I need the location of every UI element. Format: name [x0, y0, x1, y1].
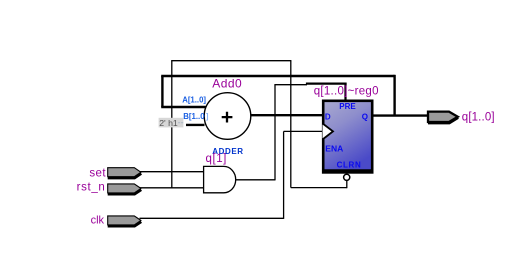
- svg-text:CLRN: CLRN: [337, 160, 362, 169]
- gate AND q[1]: [204, 166, 236, 192]
- svg-text:ENA: ENA: [325, 143, 343, 153]
- wire clrn stub to bubble: [346, 181, 348, 188]
- wire clk into clock triangle: [284, 130, 323, 132]
- svg-text:D: D: [325, 112, 331, 121]
- wire rst_n down to clrn level: [290, 61, 292, 188]
- bus constant to adder B: [186, 124, 205, 126]
- svg-text:rst_n: rst_n: [77, 181, 106, 193]
- output pin q[1..0]: [428, 112, 458, 124]
- register q[1..0]~reg0 body: [323, 101, 372, 173]
- svg-text:]: ]: [206, 112, 209, 121]
- svg-text:A[1..0]: A[1..0]: [182, 95, 206, 104]
- constant 2'h1 gray box: [159, 118, 184, 128]
- wire rst_n branch riser: [171, 61, 173, 188]
- wire PRE drop into register top: [344, 83, 346, 100]
- svg-text:q[1..0]: q[1..0]: [462, 112, 495, 124]
- wire AND output riser: [274, 85, 276, 181]
- wire PRE thick run: [306, 82, 347, 84]
- svg-text:q[1]: q[1]: [206, 153, 227, 165]
- wire rst_n pin to AND input b: [140, 187, 204, 189]
- wire clk pin horizontal: [140, 217, 284, 219]
- adder plus sign: [222, 112, 233, 123]
- wire AND output: [236, 179, 275, 181]
- svg-text:Q: Q: [362, 112, 368, 121]
- input pin set: [108, 168, 142, 178]
- wire clrn horizontal: [291, 187, 347, 189]
- wire to PRE thin run: [274, 84, 307, 86]
- register clock triangle: [323, 123, 334, 139]
- bus adder output to D: [251, 114, 323, 116]
- input pin rst_n: [108, 184, 142, 194]
- svg-text:B[1..0: B[1..0: [183, 112, 205, 121]
- svg-text:PRE: PRE: [339, 102, 356, 111]
- svg-text:Add0: Add0: [212, 77, 242, 91]
- bus Q output to pin: [373, 114, 428, 116]
- bus feedback top run: [161, 75, 394, 77]
- svg-text:set: set: [89, 167, 106, 179]
- svg-text:clk: clk: [91, 214, 105, 226]
- bus feedback left vertical: [161, 76, 163, 107]
- wire clk riser: [283, 131, 285, 219]
- svg-text:2' h1: 2' h1: [159, 118, 178, 128]
- input pin clk: [108, 216, 142, 226]
- register CLRN bubble: [344, 174, 350, 180]
- op adder Add0 circle: [204, 93, 251, 140]
- wire set pin to AND input a: [140, 171, 204, 173]
- bus adder A input: [161, 106, 206, 108]
- bus feedback right vertical: [393, 75, 395, 116]
- wire top rst_n run: [171, 60, 291, 62]
- svg-text:q[1..0]~reg0: q[1..0]~reg0: [314, 85, 379, 97]
